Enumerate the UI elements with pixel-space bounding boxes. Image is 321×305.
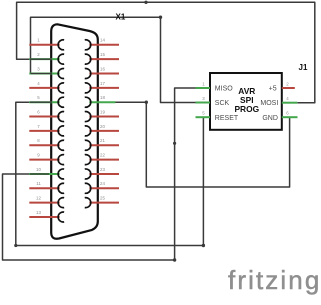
wire pin2 to MOSI (net A) (17, 2, 315, 102)
J1 pin 2 +5 stub (unconnected red) (282, 87, 295, 89)
svg-text:25: 25 (100, 196, 105, 201)
X1 pin 14 leg (89, 44, 119, 46)
connector X1 DB25 body (51, 24, 98, 238)
X1 pin 12 leg (29, 202, 59, 204)
svg-text:24: 24 (100, 181, 105, 186)
X1 pin 11 leg (29, 187, 59, 189)
svg-text:21: 21 (100, 138, 105, 143)
X1 pin 23 socket (85, 169, 91, 179)
X1 pin 18 leg (89, 101, 115, 103)
X1 pin 21 socket (85, 140, 91, 150)
wire overlay on pin5 leg (30, 101, 52, 103)
J1 pin 4 MOSI stub (282, 102, 298, 104)
X1 pin 2 leg (29, 58, 59, 60)
X1 pin 7 leg (29, 130, 59, 132)
X1 pin 25 leg (89, 202, 119, 204)
X1 right pins (85, 38, 119, 208)
X1 pin 13 socket (58, 212, 64, 222)
X1 pin 12 socket (58, 198, 64, 208)
X1 pin 8 leg (29, 144, 59, 146)
X1 pin 25 socket (85, 198, 91, 208)
X1 pin 17 socket (85, 83, 91, 93)
X1 pin 15 socket (85, 54, 91, 64)
svg-text:J1: J1 (299, 63, 308, 72)
X1 pin 15 leg (89, 58, 119, 60)
X1 pin 8 socket (58, 140, 64, 150)
svg-text:MOSI: MOSI (260, 100, 278, 107)
svg-text:20: 20 (100, 124, 105, 129)
svg-text:fritzing: fritzing (228, 265, 321, 295)
X1 pin 3 leg (29, 73, 59, 75)
svg-text:17: 17 (100, 81, 105, 86)
X1 pin 14 socket (85, 40, 91, 50)
svg-text:23: 23 (100, 167, 105, 172)
X1 pin 17 leg (89, 87, 119, 89)
bendpoint dot net C corner (202, 244, 205, 247)
wire pin5 to RESET (net C) (16, 102, 204, 245)
bendpoint dot net C left corner (14, 244, 17, 247)
svg-text:SCK: SCK (215, 100, 230, 107)
svg-text:18: 18 (100, 95, 105, 100)
X1 pin 11 socket (58, 183, 64, 193)
X1 pin 20 leg (89, 130, 119, 132)
X1 pin 2 socket (58, 54, 64, 64)
svg-text:14: 14 (100, 38, 105, 43)
wire overlay on pin2 leg (30, 58, 52, 60)
X1 pin 16 socket (85, 69, 91, 79)
J1 pin 5 RESET stub (196, 116, 211, 118)
J1 pin 6 GND stub (282, 116, 298, 118)
svg-text:16: 16 (100, 66, 105, 71)
bendpoint dot net D mid vertical (173, 142, 176, 145)
X1 pin 24 socket (85, 183, 91, 193)
svg-text:13: 13 (36, 210, 41, 215)
X1 pin 7 socket (58, 126, 64, 136)
svg-text:GND: GND (262, 115, 278, 122)
X1 pin 9 leg (29, 159, 59, 161)
svg-text:+5: +5 (269, 86, 277, 93)
svg-text:19: 19 (100, 109, 105, 114)
X1 pin 13 leg (29, 216, 59, 218)
X1 pin 20 socket (85, 126, 91, 136)
X1 pin 18 socket (85, 97, 91, 107)
svg-text:15: 15 (100, 52, 105, 57)
X1 pin 19 leg (89, 116, 119, 118)
bendpoint dot net D bottom corner (173, 258, 176, 261)
X1 pin 10 socket (58, 169, 64, 179)
svg-text:10: 10 (36, 167, 41, 172)
J1 pin 3 SCK stub (196, 102, 211, 104)
svg-text:PROG: PROG (234, 104, 259, 114)
X1 pin 6 socket (58, 112, 64, 122)
X1 pin 5 leg (29, 101, 59, 103)
X1 pin 22 socket (85, 155, 91, 165)
X1 pin 5 socket (58, 97, 64, 107)
X1 pin 21 leg (89, 144, 119, 146)
X1 pin 24 leg (89, 187, 119, 189)
bendpoint dot net B corner (159, 16, 162, 19)
X1 pin 22 leg (89, 159, 119, 161)
svg-text:12: 12 (36, 196, 41, 201)
wire overlay on pin10 leg (30, 173, 49, 175)
X1 pin 23 leg (89, 173, 119, 175)
X1 pin 19 socket (85, 112, 91, 122)
X1 left pins (29, 38, 64, 222)
X1 pin 1 socket (58, 40, 64, 50)
J1 pin 1 MISO stub (196, 87, 211, 89)
wire pin10 to MISO (net D) (3, 88, 197, 260)
X1 pin 3 socket (58, 69, 64, 79)
svg-text:RESET: RESET (215, 115, 239, 122)
X1 pin 4 leg (29, 87, 59, 89)
svg-text:X1: X1 (116, 13, 126, 22)
X1 pin 16 leg (89, 73, 119, 75)
X1 pin 1 leg (29, 44, 59, 46)
X1 pin 4 socket (58, 83, 64, 93)
svg-text:11: 11 (36, 181, 41, 186)
X1 pin 6 leg (29, 116, 59, 118)
junction dot net E at pin18 bend (145, 101, 148, 104)
wire pin3 to SCK (net B) (31, 17, 197, 102)
wire overlay on pin3 leg (31, 73, 53, 75)
svg-text:22: 22 (100, 153, 105, 158)
J1 AVR SPI PROG box (210, 73, 282, 130)
wire pin18 to GND (net E) (116, 102, 290, 187)
svg-text:MISO: MISO (215, 86, 233, 93)
bendpoint dot on net A top (144, 1, 147, 4)
X1 pin 9 socket (58, 155, 64, 165)
X1 pin 10 leg (29, 173, 59, 175)
